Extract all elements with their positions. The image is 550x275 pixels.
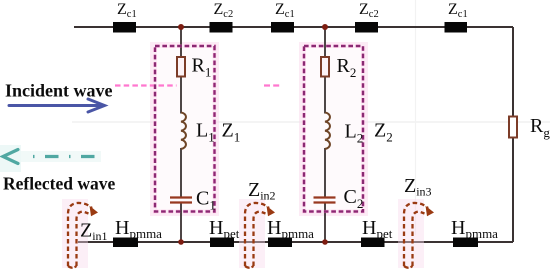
resistor R1 <box>177 57 185 77</box>
wire: top horizontal <box>74 26 513 28</box>
pink highlight wash behind branch box Z2 <box>299 42 368 216</box>
svg-text:Incident wave: Incident wave <box>5 81 113 101</box>
wire: branch 2 R2 to L2 <box>324 76 326 114</box>
dashed box Z2 (pink under-layer) <box>304 46 363 212</box>
capacitor C1 <box>170 198 192 203</box>
Zin2 pink wash <box>239 199 265 268</box>
Zin3 hook arrow <box>404 203 434 268</box>
impedance block Zc2 #4 <box>355 22 378 33</box>
svg-text:Reflected wave: Reflected wave <box>3 174 115 194</box>
bottom block H_pmma #5 <box>453 238 478 248</box>
pink dashed annotation line (left segment) <box>115 84 177 86</box>
inductor L1 <box>181 113 186 149</box>
bottom block H_pmma #3 <box>268 238 292 248</box>
dashed box Z2 <box>304 46 363 212</box>
pink highlight wash behind branch box Z1 <box>150 42 219 216</box>
impedance block Zc1 #5 <box>445 22 468 33</box>
bottom block H_pet #2 <box>210 238 234 248</box>
node bottom-right junction <box>322 239 328 245</box>
wire: branch 1 R1 to L1 <box>180 76 182 114</box>
node top-right junction <box>322 24 328 30</box>
wire: branch 2 C2 to bottom <box>324 203 326 243</box>
impedance block Zc1 #3 <box>271 22 294 33</box>
Zin1 hook arrow <box>68 203 98 268</box>
impedance block Zc1 #1 <box>113 22 136 33</box>
node bottom-left junction <box>178 239 184 245</box>
wire: branch 1 C1 to bottom <box>180 203 182 243</box>
wire: shunt branch 1 vertical (node to R1) <box>180 27 182 58</box>
impedance block Zc2 #2 <box>210 22 233 33</box>
cyan wash behind reflected-wave arrow <box>0 145 101 172</box>
Zin1 pink wash <box>62 199 88 268</box>
incident wave arrow <box>9 99 105 112</box>
node top-left junction <box>178 24 184 30</box>
inductor L2 <box>325 113 330 149</box>
capacitor C2 <box>314 198 336 203</box>
resistor Rg <box>509 117 517 138</box>
resistor R2 <box>321 57 329 77</box>
Zin2 hook arrow <box>245 203 275 268</box>
wire: right vertical <box>512 27 514 242</box>
reflected wave arrow <box>3 150 97 164</box>
wire: shunt branch 2 vertical (node to R2) <box>324 27 326 58</box>
pink dashed annotation line (middle segment) <box>264 84 281 86</box>
wire: bottom horizontal <box>78 241 513 243</box>
bottom block H_pet #4 <box>361 238 385 248</box>
wire: branch 1 L1 to C1 <box>180 148 182 198</box>
dashed box Z1 (pink under-layer) <box>155 46 215 212</box>
Zin3 pink wash <box>398 199 424 268</box>
wire: branch 2 L2 to C2 <box>324 148 326 198</box>
dashed box Z1 <box>155 46 215 212</box>
bottom block H_pmma #1 <box>113 238 138 248</box>
